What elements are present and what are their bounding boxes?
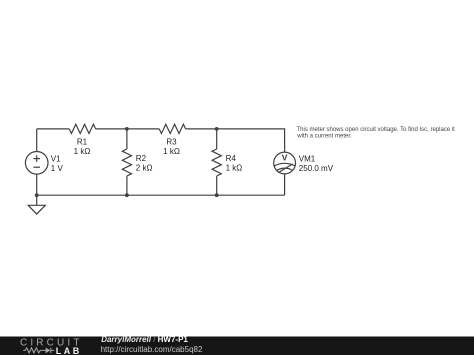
- annotation text: [296, 127, 455, 140]
- ground: [36, 195, 38, 205]
- wire left branch V1: [36, 129, 38, 195]
- labels: [51, 137, 334, 173]
- svg-text:VM1: VM1: [299, 154, 316, 163]
- svg-text:R2: R2: [136, 154, 147, 163]
- svg-text:DarrylMorrell / HW7-P1: DarrylMorrell / HW7-P1: [101, 335, 188, 344]
- resistor R2 branch wires: [126, 129, 128, 149]
- svg-text:with a current meter.: with a current meter.: [296, 134, 352, 140]
- svg-text:R1: R1: [77, 137, 88, 146]
- resistor R4: [212, 149, 221, 176]
- svg-text:V1: V1: [51, 154, 61, 163]
- footer bar: [0, 337, 474, 355]
- svg-text:1 kΩ: 1 kΩ: [163, 147, 180, 156]
- resistor R2: [122, 149, 131, 176]
- wire top left V1 to R1: [37, 128, 69, 130]
- logo diode arrow: [46, 348, 51, 354]
- wire R3 to node B and VM1 top corner: [186, 129, 285, 152]
- svg-text:2 kΩ: 2 kΩ: [136, 164, 153, 173]
- svg-text:LAB: LAB: [56, 346, 82, 355]
- wire R1 to node A: [96, 128, 160, 130]
- bottom wire: [37, 194, 285, 196]
- svg-text:1 V: 1 V: [51, 164, 64, 173]
- VM1 branch wires: [284, 174, 286, 195]
- voltage source V1: [25, 152, 48, 175]
- svg-text:1 kΩ: 1 kΩ: [226, 164, 243, 173]
- svg-text:R3: R3: [166, 137, 177, 146]
- svg-text:V: V: [282, 153, 288, 163]
- svg-text:250.0 mV: 250.0 mV: [299, 164, 334, 173]
- logo resistor zigzag: [23, 348, 54, 353]
- resistor R4 branch wires: [216, 129, 218, 149]
- resistor R1: [69, 124, 95, 133]
- svg-text:R4: R4: [226, 154, 237, 163]
- svg-text:http://circuitlab.com/cab5q82: http://circuitlab.com/cab5q82: [101, 345, 203, 354]
- svg-text:1 kΩ: 1 kΩ: [74, 147, 91, 156]
- svg-text:This meter shows open circuit: This meter shows open circuit voltage. T…: [297, 127, 456, 133]
- voltmeter VM1: [274, 152, 296, 174]
- node dots: [35, 127, 219, 197]
- resistor R3: [159, 124, 185, 133]
